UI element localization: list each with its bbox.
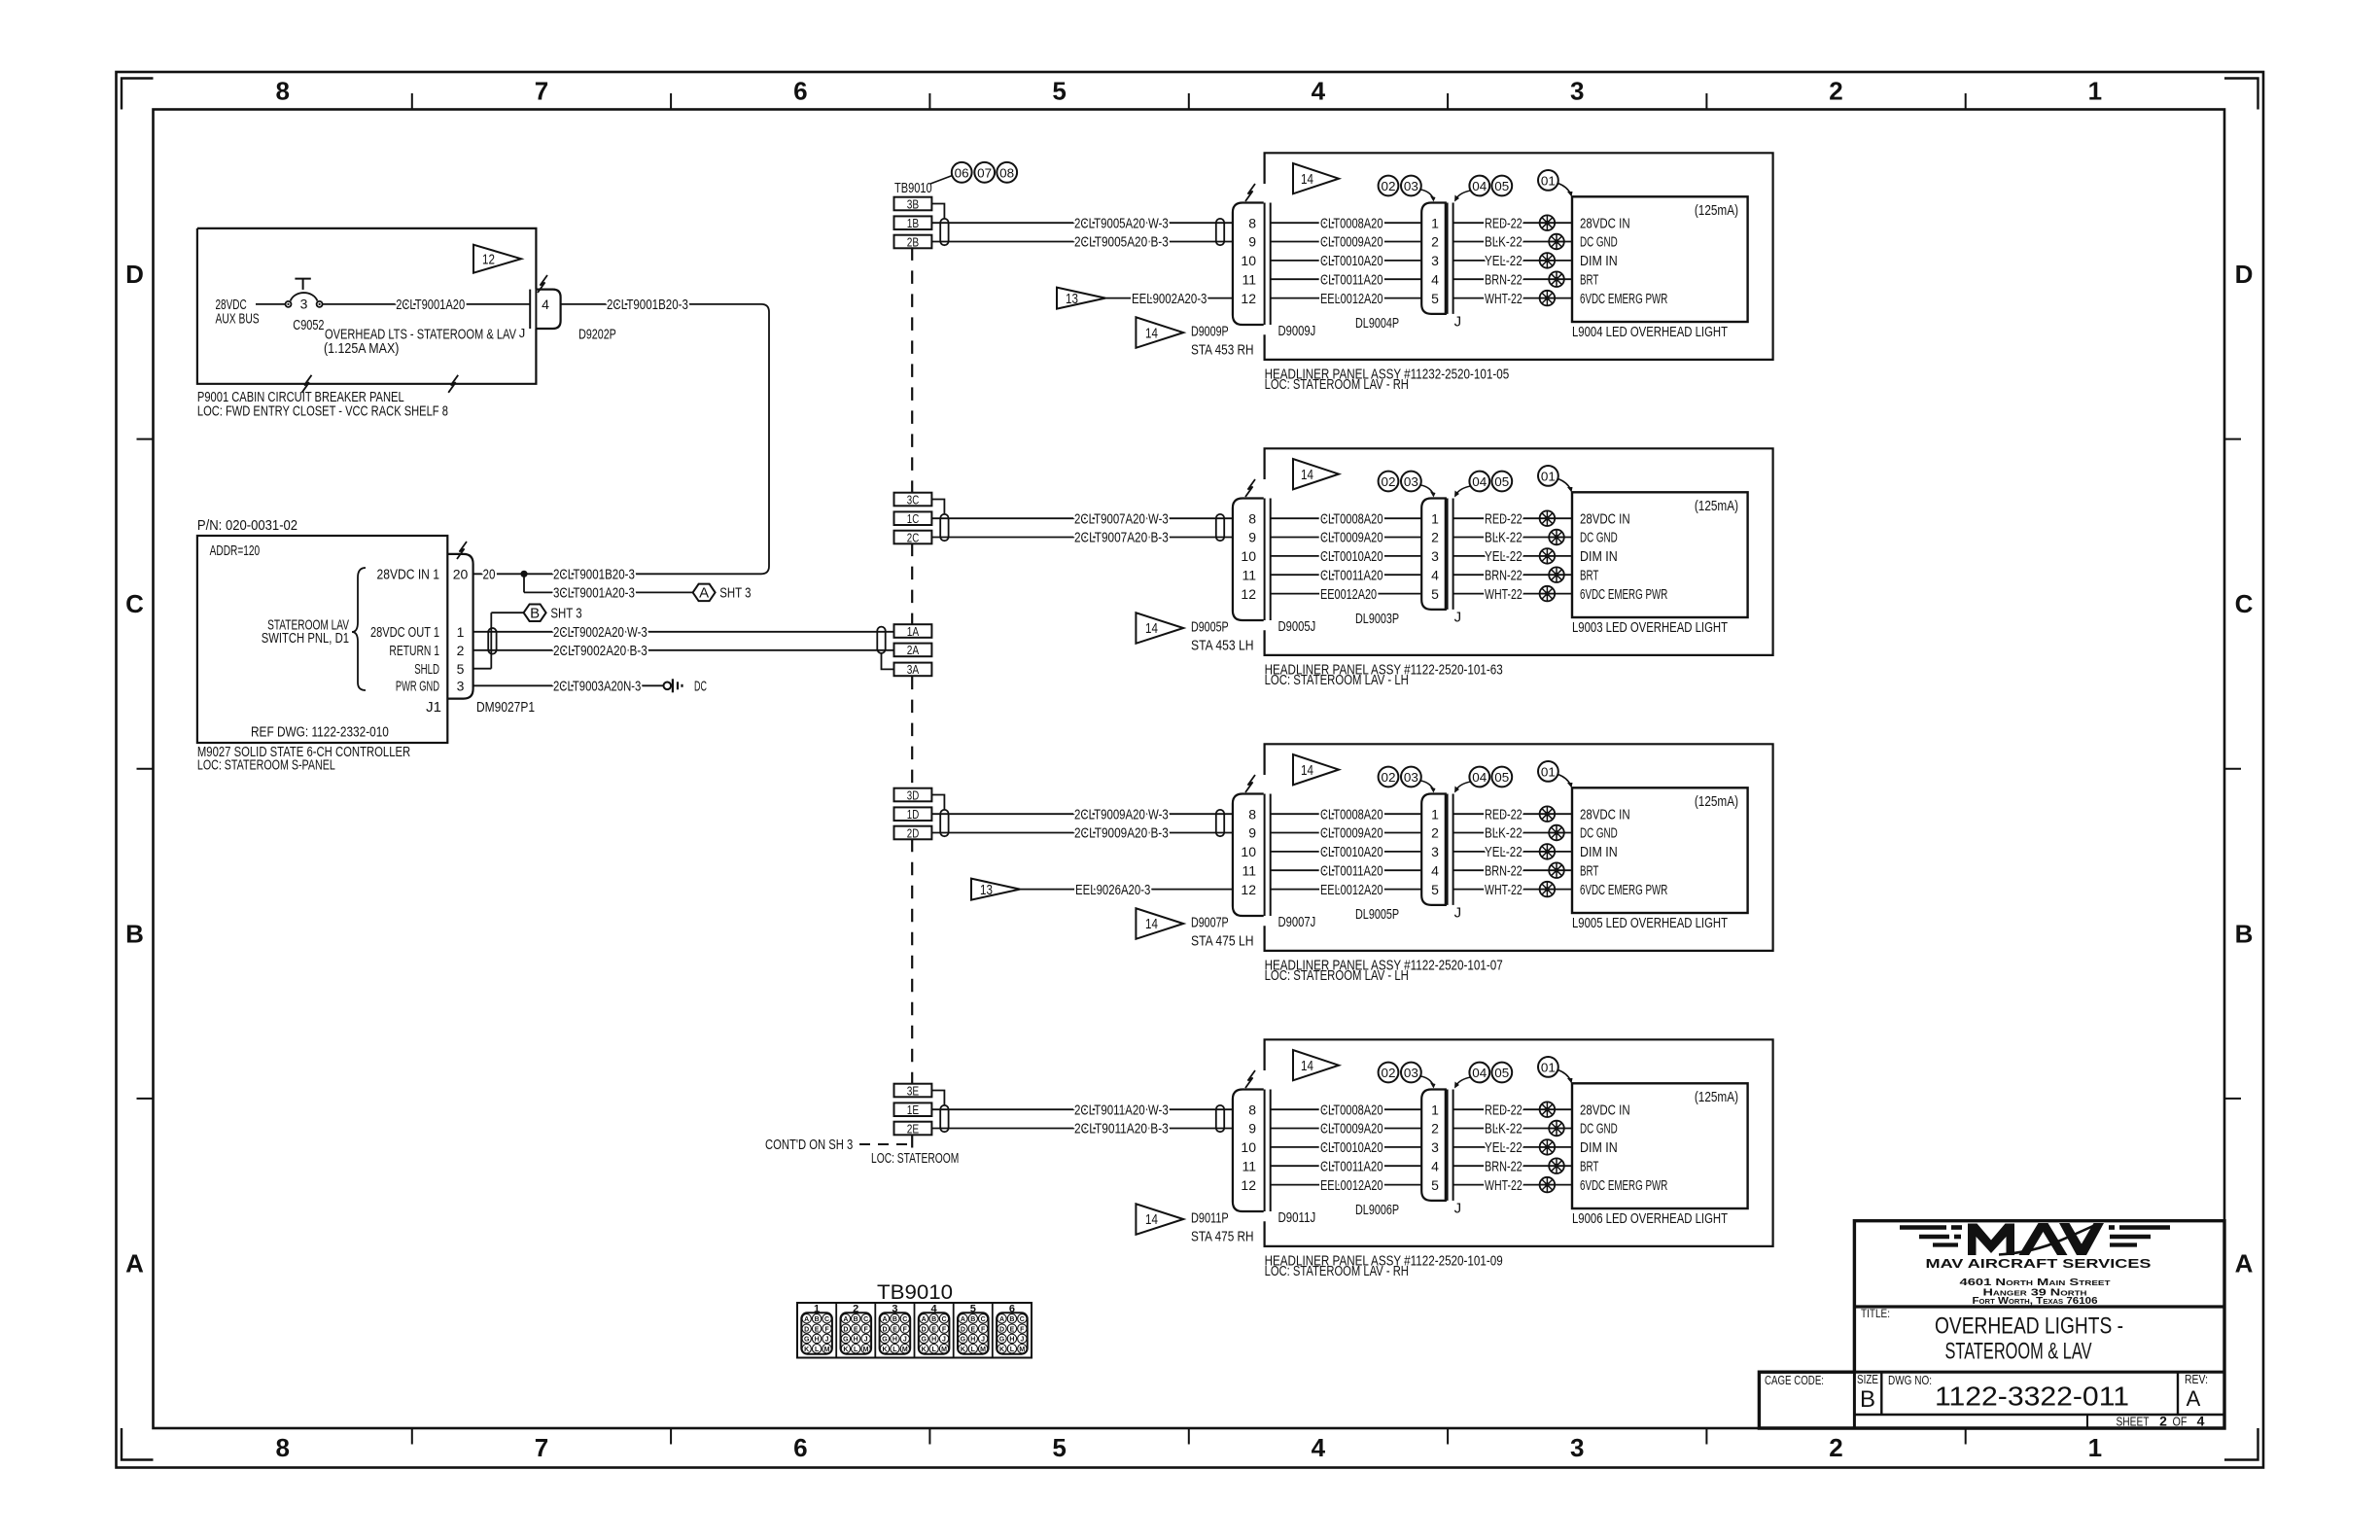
svg-text:SIZE: SIZE xyxy=(1857,1372,1878,1386)
svg-text:K: K xyxy=(804,1347,809,1353)
svg-text:J: J xyxy=(1454,1201,1462,1217)
splice symbol row 1 xyxy=(1540,806,1556,822)
svg-text:SHT 3: SHT 3 xyxy=(550,605,581,621)
terminal tag 1E xyxy=(894,1102,932,1116)
svg-text:3CLT9001A20-3: 3CLT9001A20-3 xyxy=(553,585,635,602)
svg-text:B: B xyxy=(892,1316,897,1323)
svg-text:DL9003P: DL9003P xyxy=(1355,611,1399,627)
svg-text:YEL-22: YEL-22 xyxy=(1485,548,1522,565)
circuit breaker C9052 xyxy=(286,301,292,307)
svg-text:A: A xyxy=(961,1316,965,1323)
zone tick bottom 7 xyxy=(1965,1428,1967,1445)
title block vertical divider sheet xyxy=(2086,1415,2088,1428)
svg-text:B: B xyxy=(931,1316,936,1323)
svg-text:1B: 1B xyxy=(907,216,919,230)
connector D9007J xyxy=(1233,794,1264,917)
svg-text:CLT0010A20: CLT0010A20 xyxy=(1320,548,1383,565)
shield wire from tag3 xyxy=(931,1091,944,1105)
svg-text:2: 2 xyxy=(1431,530,1439,545)
zone tick top 1 xyxy=(411,93,413,110)
wire WHT-22 xyxy=(1453,889,1572,891)
MAV logo xyxy=(1968,1224,2014,1256)
connector DL9005P xyxy=(1421,794,1446,905)
svg-text:3: 3 xyxy=(1431,844,1439,859)
svg-text:1C: 1C xyxy=(907,511,919,526)
svg-text:D: D xyxy=(804,1326,809,1333)
flag 14 top xyxy=(1293,1050,1339,1080)
svg-text:01: 01 xyxy=(1541,173,1556,188)
svg-text:12: 12 xyxy=(1241,586,1256,602)
svg-text:E: E xyxy=(970,1326,975,1333)
svg-text:D9011J: D9011J xyxy=(1278,1209,1316,1226)
svg-text:BLK-22: BLK-22 xyxy=(1485,825,1522,842)
svg-text:REF DWG: 1122-2332-010: REF DWG: 1122-2332-010 xyxy=(251,724,389,741)
svg-text:RED-22: RED-22 xyxy=(1485,215,1522,231)
svg-text:7: 7 xyxy=(535,1433,548,1462)
svg-text:DIM IN: DIM IN xyxy=(1580,548,1618,565)
splice callout circles 02 03 xyxy=(1379,472,1399,492)
splice symbol row 3 xyxy=(1540,1139,1556,1155)
svg-text:CLT0009A20: CLT0009A20 xyxy=(1320,234,1383,251)
connector J1 / DM9027P1 xyxy=(447,554,472,699)
svg-text:F: F xyxy=(981,1326,986,1333)
svg-text:3: 3 xyxy=(300,297,308,312)
svg-text:LOC: STATEROOM S-PANEL: LOC: STATEROOM S-PANEL xyxy=(197,757,335,774)
address lines xyxy=(1960,1277,2112,1307)
shield capsule right xyxy=(1216,810,1224,836)
svg-text:D9005P: D9005P xyxy=(1191,618,1229,635)
svg-text:6VDC EMERG PWR: 6VDC EMERG PWR xyxy=(1580,882,1667,898)
svg-text:4: 4 xyxy=(1312,1433,1326,1462)
shield capsule left xyxy=(940,219,948,245)
svg-text:DIM IN: DIM IN xyxy=(1580,844,1618,860)
flag 14 top xyxy=(1293,163,1339,193)
svg-text:03: 03 xyxy=(1404,1066,1418,1080)
terminal tag 1C xyxy=(894,511,932,525)
svg-text:8: 8 xyxy=(1248,1102,1256,1117)
svg-text:A: A xyxy=(922,1316,927,1323)
svg-text:D9005J: D9005J xyxy=(1278,618,1316,635)
wire RED-22 xyxy=(1453,222,1572,224)
headliner panel assembly box L9005 xyxy=(1265,744,1773,951)
svg-text:B: B xyxy=(970,1316,975,1323)
svg-text:5: 5 xyxy=(1431,1177,1439,1193)
svg-text:TB9010: TB9010 xyxy=(894,180,932,196)
svg-text:A: A xyxy=(999,1316,1004,1323)
svg-text:2CLT9002A20 B-3: 2CLT9002A20 B-3 xyxy=(553,643,647,659)
svg-text:A: A xyxy=(2187,1386,2201,1411)
corner bracket bottom-right xyxy=(2224,1428,2258,1460)
title block divider title/dwg xyxy=(1759,1371,2224,1374)
connector D9005J xyxy=(1233,499,1264,621)
wire 2CLT9002A20 B-3 xyxy=(473,649,894,651)
wire BLK-22 xyxy=(1453,537,1572,539)
svg-text:DC: DC xyxy=(694,679,707,695)
TB9010 bus dashed segment 2 xyxy=(911,543,913,624)
svg-text:A: A xyxy=(843,1316,848,1323)
wire BLK-22 xyxy=(1453,832,1572,834)
svg-text:STA 475 RH: STA 475 RH xyxy=(1191,1228,1254,1244)
svg-text:C: C xyxy=(824,1316,829,1323)
svg-text:28VDC IN 1: 28VDC IN 1 xyxy=(377,567,440,583)
svg-text:3: 3 xyxy=(1431,548,1439,564)
wire CLT0010A20 xyxy=(1271,851,1422,853)
zone tick top 5 xyxy=(1447,93,1449,110)
shield drop to 3A xyxy=(882,653,894,670)
svg-text:10: 10 xyxy=(1241,1139,1256,1155)
wire CLT0009A20 xyxy=(1271,537,1422,539)
wire 2CLT9007A20 B-3 xyxy=(931,537,1233,539)
svg-text:G: G xyxy=(961,1337,966,1344)
svg-text:E: E xyxy=(1010,1326,1015,1333)
svg-text:WHT-22: WHT-22 xyxy=(1485,586,1522,603)
wire CLT0011A20 xyxy=(1271,278,1422,280)
wire EE0012A20 xyxy=(1271,593,1422,595)
splice symbol row 5 xyxy=(1540,586,1556,602)
svg-text:2CLT9001B20-3: 2CLT9001B20-3 xyxy=(607,297,688,313)
svg-text:A: A xyxy=(804,1316,809,1323)
svg-text:CLT0011A20: CLT0011A20 xyxy=(1320,1158,1383,1174)
svg-text:1: 1 xyxy=(1431,806,1439,822)
svg-text:2: 2 xyxy=(1829,77,1842,106)
svg-text:OF: OF xyxy=(2173,1415,2187,1429)
svg-text:SHT 3: SHT 3 xyxy=(719,585,751,602)
svg-text:9: 9 xyxy=(1248,530,1256,545)
terminal block divider 5 xyxy=(992,1303,994,1358)
shield capsule right xyxy=(1216,219,1224,245)
svg-text:J: J xyxy=(825,1337,829,1344)
svg-text:01: 01 xyxy=(1541,1060,1556,1074)
svg-text:3A: 3A xyxy=(907,662,920,677)
svg-text:14: 14 xyxy=(1301,1058,1313,1074)
zone tick bottom 4 xyxy=(1188,1428,1190,1445)
LED overhead light L9004 box xyxy=(1572,196,1748,322)
wire RED-22 xyxy=(1453,1108,1572,1110)
svg-text:RED-22: RED-22 xyxy=(1485,806,1522,822)
svg-text:EEL9026A20-3: EEL9026A20-3 xyxy=(1075,882,1150,898)
wire CLT0011A20 xyxy=(1271,1165,1422,1167)
svg-text:F: F xyxy=(863,1326,868,1333)
zone tick bottom 6 xyxy=(1705,1428,1707,1445)
wire 2CLT9011A20 W-3 xyxy=(931,1108,1233,1110)
svg-text:07: 07 xyxy=(977,165,992,180)
shield capsule left xyxy=(940,514,948,541)
break symbol bottom edge left xyxy=(302,375,312,393)
svg-text:L: L xyxy=(971,1347,976,1353)
svg-text:2CLT9001B20-3: 2CLT9001B20-3 xyxy=(553,567,635,583)
svg-text:7: 7 xyxy=(535,77,548,106)
splice symbol row 3 xyxy=(1540,844,1556,859)
svg-text:4: 4 xyxy=(1431,567,1439,582)
svg-text:STA 475 LH: STA 475 LH xyxy=(1191,932,1254,949)
svg-text:BRN-22: BRN-22 xyxy=(1485,862,1522,879)
svg-text:G: G xyxy=(882,1337,888,1344)
svg-text:A: A xyxy=(125,1248,144,1277)
svg-text:3: 3 xyxy=(457,679,465,694)
wire CLT0010A20 xyxy=(1271,260,1422,262)
svg-text:WHT-22: WHT-22 xyxy=(1485,882,1522,898)
svg-text:CLT0009A20: CLT0009A20 xyxy=(1320,825,1383,842)
headliner panel assembly box L9006 xyxy=(1265,1039,1773,1246)
svg-text:02: 02 xyxy=(1382,474,1396,489)
svg-text:M: M xyxy=(941,1347,947,1353)
zone tick right 1 xyxy=(2224,438,2241,440)
wire 3CLT9001A20-3 to SHT 3 xyxy=(523,574,525,592)
svg-text:CLT0008A20: CLT0008A20 xyxy=(1320,806,1383,822)
svg-text:8: 8 xyxy=(1248,510,1256,526)
title block vertical divider dwg/rev xyxy=(2177,1372,2179,1415)
svg-text:WHT-22: WHT-22 xyxy=(1485,1177,1522,1194)
svg-text:DM9027P1: DM9027P1 xyxy=(476,699,535,716)
wire CLT0011A20 xyxy=(1271,869,1422,871)
svg-text:YEL-22: YEL-22 xyxy=(1485,1139,1522,1156)
svg-text:3: 3 xyxy=(1570,77,1584,106)
flag 14 top xyxy=(1293,754,1339,785)
headliner panel assembly box L9003 xyxy=(1265,448,1773,655)
svg-text:6VDC EMERG PWR: 6VDC EMERG PWR xyxy=(1580,291,1667,307)
svg-text:M: M xyxy=(1019,1347,1025,1353)
svg-text:C: C xyxy=(1020,1316,1025,1323)
title block vertical divider cage/size xyxy=(1853,1372,1856,1428)
svg-text:5: 5 xyxy=(1431,586,1439,602)
corner bracket top-right xyxy=(2224,79,2258,110)
splice callout circles 02 03 xyxy=(1379,767,1399,787)
svg-text:5: 5 xyxy=(457,661,465,677)
svg-text:3: 3 xyxy=(1431,253,1439,268)
svg-text:C: C xyxy=(981,1316,986,1323)
wire WHT-22 xyxy=(1453,297,1572,299)
svg-text:AUX BUS: AUX BUS xyxy=(216,311,260,328)
wire RED-22 xyxy=(1453,813,1572,815)
svg-text:L9006 LED OVERHEAD LIGHT: L9006 LED OVERHEAD LIGHT xyxy=(1572,1210,1728,1227)
wire YEL-22 xyxy=(1453,1146,1572,1148)
wire 2CLT9009A20 W-3 xyxy=(931,813,1233,815)
svg-text:2CLT9009A20 W-3: 2CLT9009A20 W-3 xyxy=(1074,806,1169,822)
splice symbol row 2 xyxy=(1549,825,1564,841)
leader to circle 06 xyxy=(930,176,953,185)
svg-text:G: G xyxy=(999,1337,1005,1344)
svg-text:CLT0011A20: CLT0011A20 xyxy=(1320,862,1383,879)
svg-text:M: M xyxy=(902,1347,908,1353)
svg-text:J: J xyxy=(519,326,526,340)
splice callout circle 01 xyxy=(1538,1057,1558,1077)
connector DL9003P xyxy=(1421,499,1446,610)
svg-text:11: 11 xyxy=(1242,862,1256,878)
svg-text:CLT0009A20: CLT0009A20 xyxy=(1320,530,1383,546)
svg-text:K: K xyxy=(922,1347,927,1353)
LED overhead light L9003 box xyxy=(1572,492,1748,617)
wire YEL-22 xyxy=(1453,555,1572,557)
svg-text:10: 10 xyxy=(1241,844,1256,859)
splice symbol row 5 xyxy=(1540,882,1556,897)
wire BLK-22 xyxy=(1453,241,1572,243)
splice symbol row 2 xyxy=(1549,1121,1564,1137)
svg-text:1D: 1D xyxy=(907,807,919,822)
connector DL9004P xyxy=(1421,203,1446,314)
svg-text:2: 2 xyxy=(1431,234,1439,250)
svg-text:TB9010: TB9010 xyxy=(877,1281,953,1304)
terminal tag 2B xyxy=(894,235,932,249)
svg-text:CLT0011A20: CLT0011A20 xyxy=(1320,271,1383,288)
svg-text:2CLT9007A20 W-3: 2CLT9007A20 W-3 xyxy=(1074,510,1169,527)
splice callout circles 02 03 xyxy=(1379,176,1399,196)
svg-text:4: 4 xyxy=(1431,1158,1439,1173)
svg-text:G: G xyxy=(804,1337,810,1344)
svg-text:2CLT9011A20 B-3: 2CLT9011A20 B-3 xyxy=(1074,1121,1169,1137)
svg-text:STA 453 RH: STA 453 RH xyxy=(1191,341,1254,358)
svg-text:RED-22: RED-22 xyxy=(1485,510,1522,527)
svg-text:01: 01 xyxy=(1541,764,1556,779)
svg-text:D9009J: D9009J xyxy=(1278,323,1316,339)
svg-text:20: 20 xyxy=(483,567,496,583)
zone tick top 6 xyxy=(1705,93,1707,110)
svg-text:13: 13 xyxy=(1066,291,1078,307)
off-sheet flag B xyxy=(473,668,492,670)
svg-text:B: B xyxy=(2235,919,2254,948)
svg-text:1122-3322-011: 1122-3322-011 xyxy=(1935,1382,2129,1412)
svg-text:1: 1 xyxy=(1431,215,1439,230)
svg-text:03: 03 xyxy=(1404,179,1418,193)
svg-text:DC GND: DC GND xyxy=(1580,234,1618,251)
svg-text:K: K xyxy=(843,1347,848,1353)
shield capsule left xyxy=(940,810,948,836)
svg-text:BRN-22: BRN-22 xyxy=(1485,271,1522,288)
svg-text:04: 04 xyxy=(1472,770,1487,785)
svg-text:J: J xyxy=(1454,610,1462,626)
wire WHT-22 xyxy=(1453,593,1572,595)
svg-text:J: J xyxy=(981,1337,985,1344)
wire CLT0008A20 xyxy=(1271,517,1422,519)
splice symbol row 4 xyxy=(1549,862,1564,878)
svg-text:14: 14 xyxy=(1145,1211,1158,1228)
svg-text:B: B xyxy=(1009,1316,1014,1323)
svg-text:3: 3 xyxy=(1431,1139,1439,1155)
svg-text:8: 8 xyxy=(1248,806,1256,822)
zone tick top 3 xyxy=(928,93,930,110)
splice symbol row 2 xyxy=(1549,530,1564,545)
svg-text:BRT: BRT xyxy=(1580,567,1598,583)
svg-text:REV:: REV: xyxy=(2185,1372,2208,1386)
svg-text:B: B xyxy=(1860,1386,1875,1413)
wire 2CLT9001A20 xyxy=(323,303,530,305)
svg-text:05: 05 xyxy=(1494,770,1509,785)
svg-text:2CLT9005A20 W-3: 2CLT9005A20 W-3 xyxy=(1074,215,1169,231)
svg-text:05: 05 xyxy=(1494,179,1509,193)
svg-text:C9052: C9052 xyxy=(293,317,324,333)
wire 2CLT9009A20 B-3 xyxy=(931,832,1233,834)
svg-text:F: F xyxy=(942,1326,947,1333)
zone tick top 2 xyxy=(670,93,672,110)
wire EEL0012A20 xyxy=(1271,889,1422,891)
svg-text:2CLT9003A20N-3: 2CLT9003A20N-3 xyxy=(553,679,641,695)
svg-text:STA 453 LH: STA 453 LH xyxy=(1191,637,1254,653)
svg-text:(1.125A MAX): (1.125A MAX) xyxy=(324,340,399,357)
svg-text:CLT0010A20: CLT0010A20 xyxy=(1320,844,1383,860)
terminal block divider 3 xyxy=(914,1303,916,1358)
svg-text:H: H xyxy=(892,1337,897,1344)
wire CLT0009A20 xyxy=(1271,1128,1422,1130)
svg-text:12: 12 xyxy=(1241,1177,1256,1193)
splice callout circle 01 xyxy=(1538,761,1558,782)
splice callout circle 01 xyxy=(1538,466,1558,486)
svg-text:DC GND: DC GND xyxy=(1580,1121,1618,1137)
svg-text:1E: 1E xyxy=(907,1102,920,1117)
wire CLT0009A20 xyxy=(1271,241,1422,243)
svg-text:SHEET: SHEET xyxy=(2117,1415,2150,1429)
svg-text:CLT0008A20: CLT0008A20 xyxy=(1320,1102,1383,1118)
svg-text:4: 4 xyxy=(1312,77,1326,106)
svg-text:28VDC IN: 28VDC IN xyxy=(1580,215,1630,231)
zone tick right 2 xyxy=(2224,768,2241,770)
svg-text:DL9005P: DL9005P xyxy=(1355,906,1399,923)
svg-text:K: K xyxy=(961,1347,965,1353)
svg-text:04: 04 xyxy=(1472,1066,1487,1080)
zone tick top 7 xyxy=(1965,93,1967,110)
controller M9027 box xyxy=(197,536,447,743)
svg-text:03: 03 xyxy=(1404,770,1418,785)
svg-text:L9003 LED OVERHEAD LIGHT: L9003 LED OVERHEAD LIGHT xyxy=(1572,619,1728,636)
svg-text:H: H xyxy=(854,1337,858,1344)
title block divider logo/title xyxy=(1854,1305,2224,1308)
svg-text:BLK-22: BLK-22 xyxy=(1485,1121,1522,1137)
terminal tag 3A xyxy=(894,663,932,677)
splice callout circles 04 05 xyxy=(1469,767,1489,787)
svg-text:6: 6 xyxy=(793,77,807,106)
wire CLT0010A20 xyxy=(1271,555,1422,557)
headliner panel assembly box L9004 xyxy=(1265,153,1773,360)
flag 13 xyxy=(1057,288,1105,309)
svg-text:02: 02 xyxy=(1382,1066,1396,1080)
terminal tag 3B xyxy=(894,197,932,211)
svg-text:5: 5 xyxy=(1431,291,1439,306)
connector D9009J xyxy=(1233,203,1264,326)
svg-text:10: 10 xyxy=(1241,253,1256,268)
shield wire from tag3 xyxy=(931,795,944,810)
svg-text:K: K xyxy=(882,1347,887,1353)
zone tick left 3 xyxy=(137,1098,154,1100)
svg-text:C: C xyxy=(2235,589,2254,618)
wire EEL0012A20 xyxy=(1271,297,1422,299)
svg-text:DL9004P: DL9004P xyxy=(1355,315,1399,332)
svg-text:H: H xyxy=(1009,1337,1014,1344)
svg-text:4: 4 xyxy=(542,297,549,312)
shield capsule right xyxy=(1216,1105,1224,1132)
svg-text:M: M xyxy=(980,1347,986,1353)
svg-text:8: 8 xyxy=(275,77,289,106)
svg-text:2C: 2C xyxy=(907,530,919,544)
svg-text:3: 3 xyxy=(1570,1433,1584,1462)
svg-text:10: 10 xyxy=(1241,548,1256,564)
svg-text:5: 5 xyxy=(1052,77,1066,106)
shield capsule at terminal block xyxy=(877,627,885,653)
svg-text:E: E xyxy=(892,1326,897,1333)
wire WHT-22 xyxy=(1453,1184,1572,1186)
shield capsule left xyxy=(940,1105,948,1132)
svg-text:05: 05 xyxy=(1494,474,1509,489)
svg-text:6VDC EMERG PWR: 6VDC EMERG PWR xyxy=(1580,1177,1667,1194)
splice callout circles 04 05 xyxy=(1469,472,1489,492)
svg-text:6: 6 xyxy=(793,1433,807,1462)
svg-text:BRT: BRT xyxy=(1580,862,1598,879)
svg-text:EEL0012A20: EEL0012A20 xyxy=(1320,882,1383,898)
svg-text:L: L xyxy=(854,1347,858,1353)
zone tick right 3 xyxy=(2224,1098,2241,1100)
svg-text:3B: 3B xyxy=(907,196,919,211)
svg-text:SWITCH PNL, D1: SWITCH PNL, D1 xyxy=(262,630,349,647)
svg-text:BRT: BRT xyxy=(1580,1158,1598,1174)
flag 14 bottom xyxy=(1136,1204,1183,1235)
splice callout circles 04 05 xyxy=(1469,176,1489,196)
